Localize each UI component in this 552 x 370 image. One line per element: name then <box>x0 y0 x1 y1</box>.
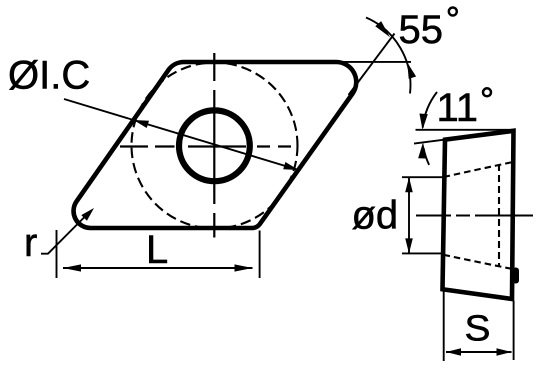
svg-text:S: S <box>465 308 491 349</box>
L arrow right <box>235 264 253 271</box>
L extension line right <box>259 231 261 279</box>
11-deg arc arrow upper <box>419 114 427 130</box>
vertical centerline of top view <box>213 53 215 238</box>
inscribed circle (dashed) <box>132 63 298 229</box>
I.C. arrow left <box>134 120 150 128</box>
degree ring of 11 <box>483 88 491 96</box>
svg-text:ØI.C: ØI.C <box>8 54 90 98</box>
side view hole bottom dashed line <box>444 255 512 269</box>
hole diameter extension line bottom <box>402 252 445 254</box>
S arrow left <box>446 348 461 356</box>
55-deg dimension arc <box>366 18 410 94</box>
55-deg extension line horizontal <box>338 61 411 63</box>
side view outline <box>443 131 514 299</box>
11-deg dimension arc lower <box>424 148 430 165</box>
55-deg arc arrow upper <box>375 21 390 37</box>
L dimension line <box>63 267 253 269</box>
corner radius arrow <box>81 208 94 221</box>
11-deg dimension arc upper <box>423 92 437 128</box>
hole diameter dimension line <box>408 177 410 253</box>
I.C. arrow right <box>283 162 298 170</box>
svg-text:55: 55 <box>399 8 444 52</box>
hole diameter arrow up <box>405 177 413 192</box>
side view horizontal centerline <box>416 215 533 217</box>
S arrow right <box>497 348 512 356</box>
side view hole vertical dashed line <box>498 164 500 267</box>
S extension line right <box>513 301 515 361</box>
svg-text:ød: ød <box>352 194 399 238</box>
corner radius leader line <box>41 212 90 254</box>
55-deg extension line slanted <box>349 34 395 96</box>
L arrow left <box>63 264 81 271</box>
center hole <box>179 110 250 181</box>
L extension line left <box>56 230 58 278</box>
horizontal centerline of top view <box>120 145 291 147</box>
svg-text:L: L <box>146 228 168 272</box>
side view hole top dashed line <box>444 162 512 177</box>
svg-text:r: r <box>24 221 37 265</box>
insert top view outline (55-deg rhombic insert) <box>74 62 357 228</box>
hole diameter arrow down <box>405 238 413 253</box>
11-deg top edge extension <box>414 140 445 144</box>
degree ring of 55 <box>449 8 457 16</box>
55-deg arc arrow lower <box>407 63 416 79</box>
S dimension line <box>446 351 512 353</box>
I.C. diameter dimension line <box>64 99 299 170</box>
far corner bump on right edge <box>513 268 520 284</box>
hole diameter extension line top <box>402 176 445 178</box>
S extension line left <box>443 290 445 361</box>
svg-text:11: 11 <box>437 86 479 130</box>
11-deg arc arrow lower <box>418 142 426 158</box>
11-deg reference line horizontal <box>416 129 515 131</box>
